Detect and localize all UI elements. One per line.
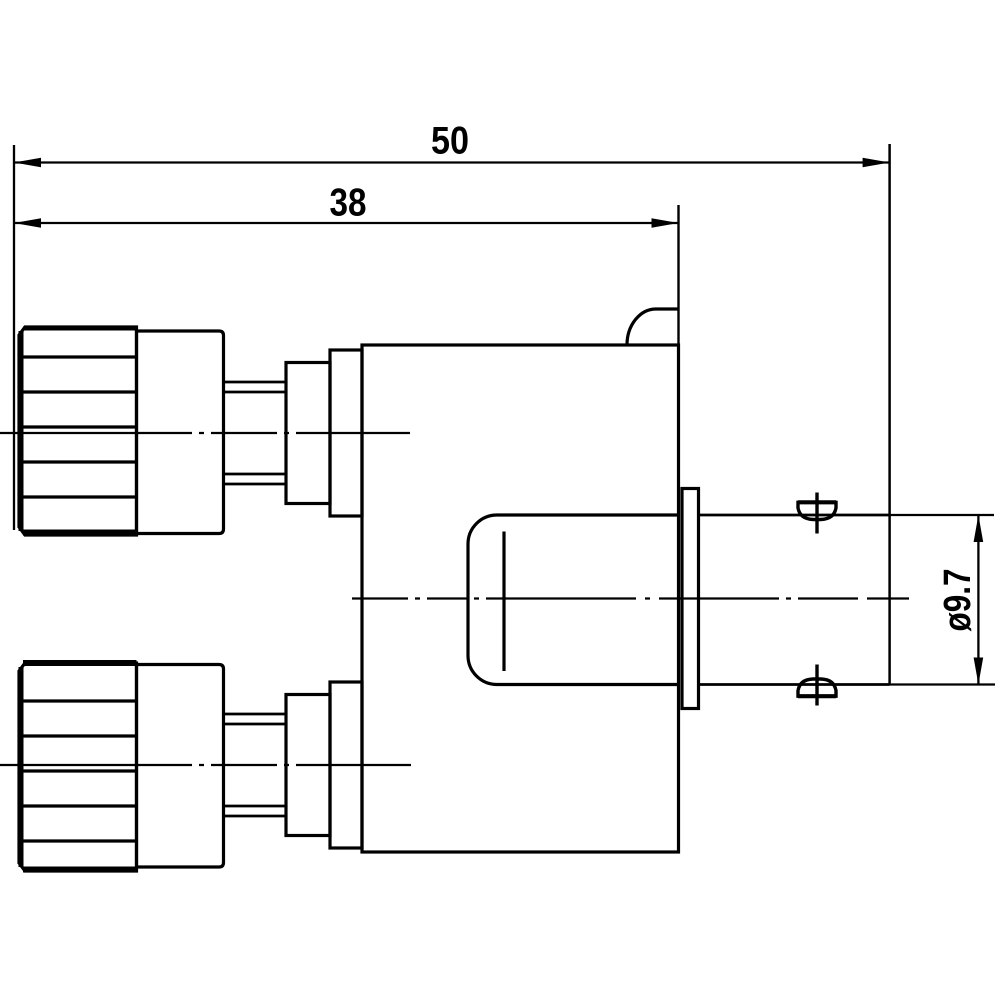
dimension 9.7 extension lines — [890, 515, 995, 685]
threaded shaft top — [224, 382, 287, 484]
dimension 9.7 line — [974, 515, 984, 685]
knurl lines top knob — [21, 357, 137, 497]
knurl lines bottom knob — [21, 701, 137, 841]
BNC barrel — [699, 515, 890, 685]
dimension 50 line — [14, 158, 890, 168]
svg-text:ø9.7: ø9.7 — [937, 569, 979, 632]
hex section top — [286, 363, 330, 504]
BNC barrel right end and 50 extension line — [888, 144, 891, 685]
svg-text:38: 38 — [330, 182, 367, 225]
knurled knob top — [19, 327, 137, 535]
hex section bottom — [286, 695, 330, 836]
flange — [682, 489, 699, 709]
knurled knob bottom — [19, 663, 137, 871]
inner cavity end line — [502, 532, 505, 672]
collar bottom — [137, 665, 224, 868]
dimension 38 label — [330, 182, 367, 225]
centerline top post axis — [0, 432, 410, 434]
main body — [362, 345, 679, 852]
svg-text:50: 50 — [431, 120, 469, 163]
cable boot bump — [627, 309, 679, 345]
bayonet pin top — [798, 493, 836, 534]
dimension 38 extension line right — [677, 205, 679, 345]
inner cavity outline — [468, 515, 680, 685]
dimension 50 label — [431, 120, 469, 163]
bushing bottom — [330, 682, 362, 848]
bushing top — [330, 350, 362, 516]
dimension 50 extension line left — [13, 145, 15, 530]
centerline bottom post axis — [0, 764, 411, 766]
bayonet pin bottom — [798, 665, 836, 706]
centerline main BNC axis — [352, 597, 909, 599]
collar top — [137, 331, 224, 534]
dimension 38 line — [14, 218, 679, 228]
dimension 9.7 label — [937, 569, 979, 632]
threaded shaft bottom — [224, 714, 287, 816]
